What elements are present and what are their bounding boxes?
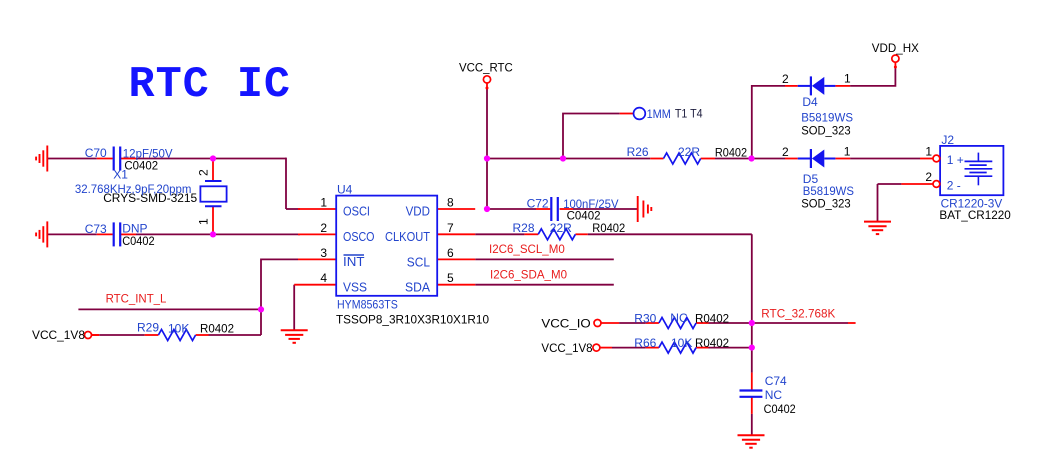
svg-text:22R: 22R bbox=[678, 145, 700, 159]
svg-text:5: 5 bbox=[447, 271, 454, 285]
svg-text:8: 8 bbox=[447, 196, 454, 210]
svg-text:HYM8563TS: HYM8563TS bbox=[337, 298, 398, 312]
svg-text:NC: NC bbox=[670, 311, 688, 325]
svg-text:R0402: R0402 bbox=[200, 322, 234, 336]
svg-text:VCC_1V8: VCC_1V8 bbox=[32, 328, 85, 342]
svg-text:12pF/50V: 12pF/50V bbox=[123, 147, 173, 161]
svg-text:C0402: C0402 bbox=[764, 402, 796, 416]
svg-text:2: 2 bbox=[782, 72, 789, 86]
svg-text:CR1220-3V: CR1220-3V bbox=[941, 197, 1003, 211]
svg-text:T1 T4: T1 T4 bbox=[675, 107, 703, 121]
svg-text:6: 6 bbox=[447, 246, 454, 260]
svg-text:10K: 10K bbox=[671, 336, 692, 350]
svg-text:SCL: SCL bbox=[407, 254, 430, 269]
svg-text:D4: D4 bbox=[802, 95, 818, 109]
svg-text:R0402: R0402 bbox=[715, 146, 747, 160]
svg-text:VDD: VDD bbox=[406, 204, 430, 219]
svg-text:RTC IC: RTC IC bbox=[129, 61, 291, 110]
svg-text:DNP: DNP bbox=[122, 222, 147, 236]
svg-text:SDA: SDA bbox=[405, 279, 430, 294]
svg-text:32.768KHz,9pF,20ppm: 32.768KHz,9pF,20ppm bbox=[75, 182, 191, 196]
svg-text:1 +: 1 + bbox=[947, 153, 964, 167]
svg-text:1MM: 1MM bbox=[647, 107, 671, 121]
svg-text:C74: C74 bbox=[765, 374, 787, 388]
svg-text:OSCO: OSCO bbox=[343, 229, 375, 244]
svg-text:2: 2 bbox=[320, 221, 327, 235]
svg-text:VCC_RTC: VCC_RTC bbox=[459, 61, 513, 75]
svg-text:C70: C70 bbox=[85, 146, 107, 160]
svg-text:OSCI: OSCI bbox=[343, 204, 370, 219]
svg-text:R28: R28 bbox=[513, 221, 535, 235]
svg-text:VCC_1V8: VCC_1V8 bbox=[541, 341, 592, 355]
svg-text:VCC_IO: VCC_IO bbox=[541, 317, 590, 331]
svg-text:2: 2 bbox=[925, 170, 932, 184]
svg-text:C72: C72 bbox=[527, 197, 549, 211]
svg-text:CLKOUT: CLKOUT bbox=[385, 229, 430, 244]
svg-text:B5819WS: B5819WS bbox=[801, 111, 853, 125]
svg-text:4: 4 bbox=[320, 271, 327, 285]
svg-text:RTC_INT_L: RTC_INT_L bbox=[106, 292, 167, 306]
svg-text:1: 1 bbox=[844, 145, 851, 159]
svg-text:R29: R29 bbox=[137, 321, 159, 335]
svg-text:SOD_323: SOD_323 bbox=[801, 124, 851, 138]
svg-text:2: 2 bbox=[197, 169, 211, 176]
svg-text:C73: C73 bbox=[85, 222, 107, 236]
svg-text:1: 1 bbox=[320, 196, 327, 210]
svg-text:J2: J2 bbox=[941, 133, 954, 147]
svg-text:1: 1 bbox=[197, 218, 211, 225]
svg-text:1: 1 bbox=[844, 71, 851, 85]
svg-text:100nF/25V: 100nF/25V bbox=[563, 197, 618, 211]
svg-text:X1: X1 bbox=[113, 168, 128, 182]
svg-text:R30: R30 bbox=[634, 312, 656, 326]
svg-text:VSS: VSS bbox=[343, 279, 367, 294]
svg-text:R66: R66 bbox=[634, 336, 656, 350]
svg-text:INT: INT bbox=[343, 254, 365, 269]
svg-text:7: 7 bbox=[447, 221, 454, 235]
svg-text:10K: 10K bbox=[168, 322, 189, 336]
svg-text:NC: NC bbox=[765, 388, 783, 402]
svg-text:RTC_32.768K: RTC_32.768K bbox=[761, 307, 835, 321]
svg-text:C0402: C0402 bbox=[122, 234, 155, 248]
svg-text:VDD_HX: VDD_HX bbox=[872, 41, 919, 55]
svg-text:R0402: R0402 bbox=[695, 312, 729, 326]
svg-text:I2C6_SDA_M0: I2C6_SDA_M0 bbox=[490, 268, 567, 282]
svg-text:B5819WS: B5819WS bbox=[803, 184, 854, 198]
svg-text:I2C6_SCL_M0: I2C6_SCL_M0 bbox=[489, 242, 565, 256]
svg-text:22R: 22R bbox=[550, 221, 572, 235]
svg-text:2: 2 bbox=[782, 145, 789, 159]
svg-text:TSSOP8_3R10X3R10X1R10: TSSOP8_3R10X3R10X1R10 bbox=[336, 313, 489, 327]
svg-text:C0402: C0402 bbox=[124, 159, 158, 173]
svg-text:3: 3 bbox=[320, 246, 327, 260]
svg-text:SOD_323: SOD_323 bbox=[801, 197, 851, 211]
svg-text:2 -: 2 - bbox=[947, 178, 961, 192]
svg-text:R0402: R0402 bbox=[592, 221, 625, 235]
svg-text:R26: R26 bbox=[627, 145, 649, 159]
svg-text:U4: U4 bbox=[337, 183, 353, 197]
svg-text:R0402: R0402 bbox=[695, 336, 729, 350]
svg-text:1: 1 bbox=[925, 145, 932, 159]
